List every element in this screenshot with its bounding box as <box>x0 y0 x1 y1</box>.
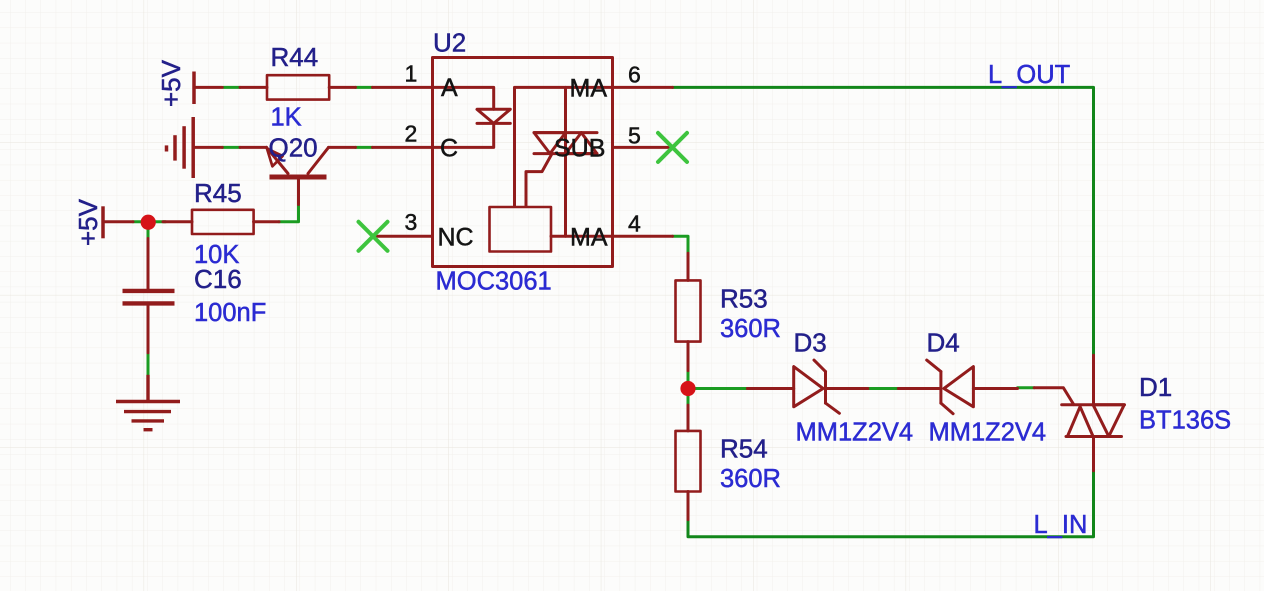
net green wire R44 to U2 pin1 <box>356 86 373 89</box>
svg-text:U2: U2 <box>433 28 466 58</box>
emitter arrow <box>267 149 283 167</box>
U2 pin 4 stub <box>613 235 673 238</box>
svg-text:Q20: Q20 <box>269 133 318 163</box>
net green wire junction to R45 <box>155 220 166 223</box>
svg-text:1K: 1K <box>271 104 302 132</box>
ground symbol GND (bottom) <box>116 375 180 430</box>
svg-text:SUB: SUB <box>554 135 605 163</box>
base bar <box>270 175 327 180</box>
gate wire <box>1034 388 1074 405</box>
MT2 wire <box>1092 355 1095 403</box>
net N$1 green wire +5V to R44 <box>224 86 241 89</box>
svg-text:R53: R53 <box>720 284 768 314</box>
U2 internal LED <box>433 87 511 147</box>
net green wire +5V to junction <box>133 220 141 223</box>
svg-text:BT136S: BT136S <box>1139 407 1231 435</box>
base pin <box>297 179 300 205</box>
svg-text:3: 3 <box>405 209 418 235</box>
U2 pin 3 stub <box>373 235 433 238</box>
svg-text:C16: C16 <box>194 264 242 294</box>
net L_IN green wire R54 to triac D1 <box>688 471 1094 537</box>
net green wire junction to R54 <box>687 396 690 405</box>
junction dot R53/R54/D3 <box>680 381 695 396</box>
U2 internal wire to pin4 <box>551 235 613 238</box>
svg-text:+5V: +5V <box>73 198 103 246</box>
net green wire D3 to D4 <box>868 387 899 390</box>
resistor R44 <box>240 86 267 89</box>
capacitor C16 <box>147 239 150 290</box>
collector wire <box>329 146 356 149</box>
svg-text:6: 6 <box>628 62 641 88</box>
svg-text:R45: R45 <box>194 178 242 208</box>
internal triac gate <box>526 154 552 206</box>
svg-text:+5V: +5V <box>156 59 186 107</box>
net green wire C16 to GND <box>147 353 150 375</box>
svg-text:D3: D3 <box>794 328 827 358</box>
wire pin of +5V to net <box>194 86 222 89</box>
supply +5V symbol (top) <box>192 72 196 105</box>
net green wire Q20 collector to U2 pin2 <box>356 146 373 149</box>
svg-text:2: 2 <box>405 120 418 146</box>
svg-text:4: 4 <box>628 211 641 237</box>
supply +5V symbol (bottom) <box>101 206 105 238</box>
net green wire pin4 to R53 <box>673 236 689 253</box>
U2 internal wire pin6 to detector <box>515 87 613 206</box>
svg-text:A: A <box>441 74 458 102</box>
zener diode D4 <box>898 360 1017 414</box>
emitter diagonal <box>267 147 289 173</box>
svg-text:NC: NC <box>438 223 474 251</box>
svg-text:R54: R54 <box>720 434 768 464</box>
MT1 wire <box>1092 437 1095 471</box>
svg-text:R44: R44 <box>271 42 319 72</box>
svg-text:L_IN: L_IN <box>1034 511 1088 539</box>
U2 pin 1 stub <box>373 86 433 89</box>
svg-text:360R: 360R <box>720 465 781 493</box>
net L_OUT green wire pin6 to triac D1 <box>673 87 1094 355</box>
resistor R53 <box>687 253 690 280</box>
U2 pin 5 stub <box>613 146 673 149</box>
svg-text:L_OUT: L_OUT <box>988 61 1070 89</box>
net green wire junction to C16 <box>147 229 150 239</box>
U2 pin 2 stub <box>373 146 433 149</box>
resistor R45 <box>163 220 192 223</box>
emitter wire <box>240 146 267 149</box>
collector diagonal <box>308 147 329 173</box>
U2 internal triac <box>526 87 597 236</box>
zener diode D3 <box>747 360 867 413</box>
svg-text:5: 5 <box>628 123 641 149</box>
ground symbol GND (left, rotated) <box>167 117 194 178</box>
svg-text:MM1Z2V4: MM1Z2V4 <box>796 419 914 447</box>
triac D1 <box>1034 355 1124 471</box>
transistor Q20 <box>240 147 356 204</box>
net green wire R53 to junction <box>687 371 690 381</box>
net green wire junction to D3 <box>696 387 748 390</box>
net green wire D4 to D1 gate <box>1018 386 1035 389</box>
wire pin of +5V to junction <box>103 220 133 223</box>
resistor R54 <box>687 405 690 431</box>
unconnected X at pin 3 <box>359 222 388 251</box>
net green wire R45 to Q20 base <box>279 205 299 222</box>
U2 internal zero-cross box <box>490 207 552 252</box>
net green wire GND to Q20 emitter <box>222 146 240 149</box>
U2 pin 6 stub <box>613 86 673 89</box>
svg-text:MA: MA <box>570 224 608 252</box>
junction dot at +5V/R45/C16 <box>141 215 156 230</box>
svg-text:100nF: 100nF <box>194 299 266 327</box>
wire pin of GND to net <box>193 146 222 149</box>
svg-text:MOC3061: MOC3061 <box>436 268 552 296</box>
unconnected X at pin 5 <box>658 133 687 162</box>
svg-text:D1: D1 <box>1139 372 1172 402</box>
svg-text:MM1Z2V4: MM1Z2V4 <box>929 419 1047 447</box>
svg-text:MA: MA <box>570 75 608 103</box>
svg-text:1: 1 <box>405 60 418 86</box>
op-to-coupler U2 box <box>433 58 613 267</box>
svg-text:360R: 360R <box>720 315 781 343</box>
svg-text:C: C <box>440 135 458 163</box>
svg-text:D4: D4 <box>927 328 960 358</box>
